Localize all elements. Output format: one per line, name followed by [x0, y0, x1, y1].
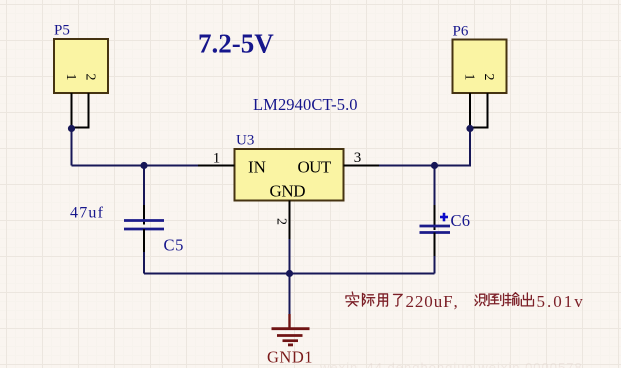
char 了 [393, 294, 402, 306]
svg-text:2: 2 [82, 74, 97, 81]
svg-text:OUT: OUT [298, 158, 332, 177]
svg-text:U3: U3 [236, 133, 254, 149]
svg-text:LM2940CT-5.0: LM2940CT-5.0 [253, 95, 358, 114]
svg-text:220uF: 220uF [406, 292, 454, 311]
svg-text:IN: IN [248, 158, 266, 177]
char 测 [475, 294, 489, 306]
char 到 [490, 294, 503, 306]
U3 pin 1 [198, 151, 235, 167]
svg-text:1: 1 [213, 151, 221, 167]
U3 pin 2 [273, 201, 289, 240]
wire bottom rail [144, 273, 435, 275]
svg-text:2: 2 [481, 74, 496, 81]
junction at P5 pins [68, 125, 75, 132]
capacitor C6 [420, 205, 451, 256]
connector P6 [453, 24, 507, 94]
wire C6 to bottom rail [434, 256, 436, 274]
wire left horizontal to U3 [72, 165, 199, 167]
ground symbol GND1 [272, 314, 310, 345]
wire P5 down [71, 129, 73, 166]
wire C6 branch down [434, 166, 436, 206]
char 实 [346, 292, 359, 306]
annotation text (red) : 实际用了220uF, 测到输出5.01v [346, 292, 534, 306]
char 出 [521, 293, 533, 306]
junction at ground node [286, 270, 293, 277]
svg-text:3: 3 [354, 150, 362, 166]
svg-text:wexin_44 denghongjun weixin: wexin_44 denghongjun weixin 0000578 [319, 360, 583, 368]
C6 plus polarity mark [440, 213, 448, 222]
char 用 [377, 294, 387, 306]
svg-text:GND: GND [270, 182, 306, 201]
wire P6 down to output rail [379, 129, 470, 166]
wire C5 to bottom rail [143, 252, 145, 274]
wire C5 branch down [143, 166, 145, 206]
P5 pin 1 [63, 74, 78, 129]
P6 pin 2 [472, 74, 496, 128]
junction at C5 branch [140, 162, 147, 169]
char 输 [505, 293, 519, 306]
svg-text:,: , [454, 292, 458, 311]
char 际 [363, 293, 375, 306]
svg-text:1: 1 [461, 74, 476, 81]
wire U3 pin2 to bottom rail [289, 239, 291, 274]
wire ground stem [289, 274, 291, 315]
svg-text:47uf: 47uf [70, 205, 104, 222]
svg-text:5.01v: 5.01v [537, 292, 585, 311]
svg-text:C5: C5 [164, 236, 184, 255]
capacitor C5 [124, 205, 164, 252]
P5 pin 2 [73, 74, 97, 128]
svg-text:C6: C6 [451, 211, 471, 230]
svg-text:P5: P5 [54, 23, 70, 39]
connector P5 [54, 23, 108, 94]
svg-text:GND1: GND1 [267, 348, 313, 367]
svg-text:2: 2 [273, 218, 288, 225]
svg-text:7.2-5V: 7.2-5V [198, 29, 274, 59]
svg-text:1: 1 [63, 74, 78, 81]
P6 pin 1 [461, 74, 476, 129]
U3 pin 3 [344, 150, 380, 166]
svg-text:P6: P6 [453, 24, 469, 40]
junction at P6 pins [466, 125, 473, 132]
regulator U3 [235, 133, 344, 201]
junction at C6 branch [431, 162, 438, 169]
